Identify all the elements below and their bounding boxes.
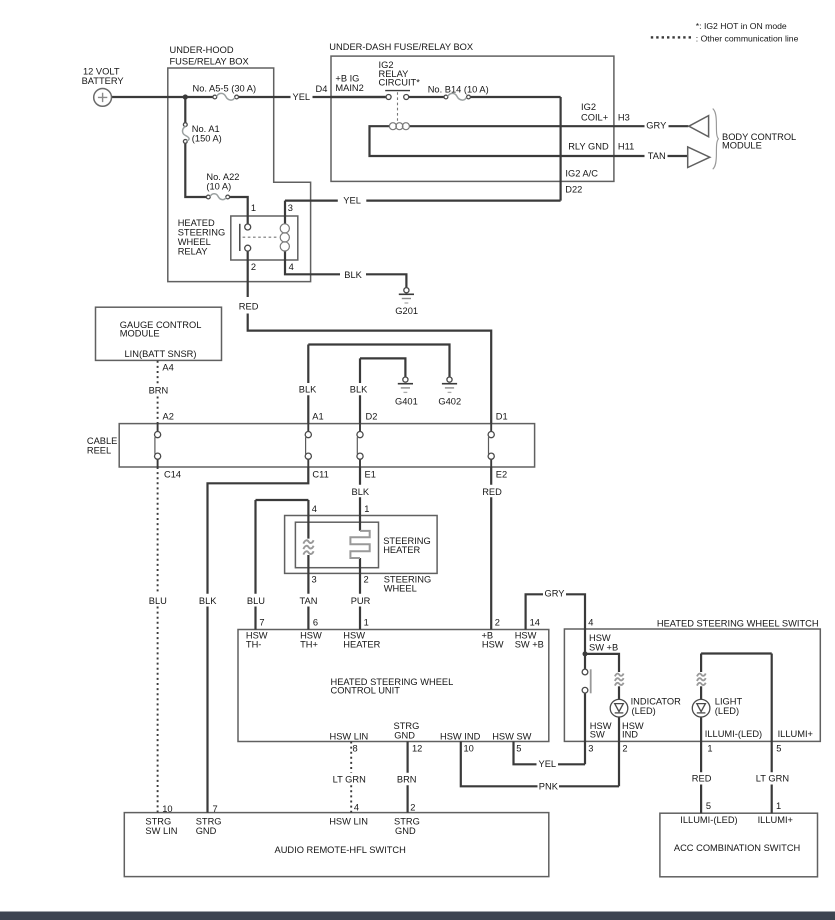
svg-text:UNDER-DASH FUSE/RELAY BOX: UNDER-DASH FUSE/RELAY BOX bbox=[329, 42, 473, 52]
svg-text:LT GRN: LT GRN bbox=[756, 773, 789, 783]
svg-text:D22: D22 bbox=[565, 184, 582, 194]
svg-text:HSW IND: HSW IND bbox=[440, 732, 481, 742]
svg-text:A4: A4 bbox=[162, 363, 173, 373]
svg-text:TH-: TH- bbox=[246, 640, 262, 650]
svg-text:4: 4 bbox=[588, 617, 593, 627]
svg-text:AUDIO REMOTE-HFL SWITCH: AUDIO REMOTE-HFL SWITCH bbox=[275, 845, 406, 855]
svg-text:SW LIN: SW LIN bbox=[145, 826, 177, 836]
svg-text:GND: GND bbox=[196, 826, 217, 836]
svg-text:TAN: TAN bbox=[300, 596, 318, 606]
svg-text:(LED): (LED) bbox=[632, 706, 656, 716]
svg-text:YEL: YEL bbox=[539, 759, 557, 769]
svg-text:PUR: PUR bbox=[351, 596, 371, 606]
svg-text:(150 A): (150 A) bbox=[192, 133, 222, 143]
svg-text:HEATED STEERING WHEEL SWITCH: HEATED STEERING WHEEL SWITCH bbox=[657, 618, 819, 628]
svg-text:ILLUMI+: ILLUMI+ bbox=[778, 729, 813, 739]
svg-text:TH+: TH+ bbox=[300, 640, 318, 650]
svg-text:CABLE: CABLE bbox=[87, 436, 118, 446]
svg-text:SW +B: SW +B bbox=[515, 640, 544, 650]
svg-text:BRN: BRN bbox=[397, 775, 417, 785]
svg-text:2: 2 bbox=[364, 574, 369, 584]
svg-text:A1: A1 bbox=[312, 412, 323, 422]
svg-text:2: 2 bbox=[251, 262, 256, 272]
svg-text:BRN: BRN bbox=[149, 385, 169, 395]
svg-text:12 VOLT: 12 VOLT bbox=[83, 67, 120, 77]
svg-text:5: 5 bbox=[706, 801, 711, 811]
svg-text:YEL: YEL bbox=[293, 92, 311, 102]
svg-text:2: 2 bbox=[410, 803, 415, 813]
svg-text:C11: C11 bbox=[312, 470, 328, 480]
svg-text:D1: D1 bbox=[496, 412, 508, 422]
svg-text:BLU: BLU bbox=[247, 596, 265, 606]
svg-text:PNK: PNK bbox=[539, 782, 559, 792]
svg-text:HEATED: HEATED bbox=[178, 218, 215, 228]
svg-text:RELAY: RELAY bbox=[178, 247, 208, 257]
svg-text:BLU: BLU bbox=[149, 596, 167, 606]
svg-text:E2: E2 bbox=[496, 470, 507, 480]
svg-text:HSW: HSW bbox=[482, 640, 504, 650]
svg-text:3: 3 bbox=[288, 203, 293, 213]
svg-text:LIGHT: LIGHT bbox=[715, 696, 743, 706]
svg-text:WHEEL: WHEEL bbox=[384, 584, 417, 594]
svg-text:(LED): (LED) bbox=[715, 706, 739, 716]
svg-text:GRY: GRY bbox=[545, 589, 565, 599]
svg-text:10: 10 bbox=[464, 744, 474, 754]
svg-text:IG2 A/C: IG2 A/C bbox=[565, 169, 598, 179]
svg-text:MODULE: MODULE bbox=[120, 329, 160, 339]
svg-text:HEATER: HEATER bbox=[383, 545, 420, 555]
svg-text:SW: SW bbox=[590, 730, 605, 740]
svg-text:SW +B: SW +B bbox=[589, 642, 618, 652]
svg-text:HSW LIN: HSW LIN bbox=[330, 732, 369, 742]
svg-text:(10 A): (10 A) bbox=[206, 181, 231, 191]
svg-text:No. A5-5 (30 A): No. A5-5 (30 A) bbox=[193, 83, 257, 93]
svg-text:INDICATOR: INDICATOR bbox=[631, 696, 682, 706]
svg-text:CONTROL UNIT: CONTROL UNIT bbox=[331, 686, 401, 696]
svg-text:MAIN2: MAIN2 bbox=[335, 83, 363, 93]
svg-text:: Other communication line: : Other communication line bbox=[696, 34, 799, 44]
svg-text:RED: RED bbox=[239, 302, 259, 312]
svg-text:STRG: STRG bbox=[196, 816, 222, 826]
svg-text:+B IG: +B IG bbox=[335, 74, 359, 84]
svg-text:BLK: BLK bbox=[199, 596, 217, 606]
svg-text:10: 10 bbox=[162, 804, 172, 814]
svg-text:ILLUMI-(LED): ILLUMI-(LED) bbox=[705, 729, 762, 739]
svg-text:H3: H3 bbox=[618, 112, 630, 122]
svg-text:RLY GND: RLY GND bbox=[568, 141, 609, 151]
svg-text:1: 1 bbox=[364, 617, 369, 627]
svg-text:BLK: BLK bbox=[299, 385, 317, 395]
svg-text:ILLUMI-(LED): ILLUMI-(LED) bbox=[680, 815, 737, 825]
svg-text:BATTERY: BATTERY bbox=[82, 76, 124, 86]
svg-text:HSW SW: HSW SW bbox=[492, 732, 531, 742]
svg-text:1: 1 bbox=[707, 744, 712, 754]
svg-text:E1: E1 bbox=[365, 470, 376, 480]
svg-text:MODULE: MODULE bbox=[722, 140, 762, 150]
svg-text:RED: RED bbox=[482, 487, 502, 497]
svg-text:BLK: BLK bbox=[350, 385, 368, 395]
svg-text:*: IG2 HOT in ON mode: *: IG2 HOT in ON mode bbox=[696, 21, 787, 31]
svg-text:2: 2 bbox=[622, 744, 627, 754]
svg-text:HSW LIN: HSW LIN bbox=[329, 816, 368, 826]
svg-text:H11: H11 bbox=[618, 141, 634, 151]
svg-text:STRG: STRG bbox=[145, 816, 171, 826]
svg-text:D2: D2 bbox=[366, 412, 378, 422]
svg-text:GRY: GRY bbox=[646, 120, 666, 130]
svg-text:6: 6 bbox=[313, 617, 318, 627]
svg-text:WHEEL: WHEEL bbox=[178, 237, 211, 247]
svg-text:A2: A2 bbox=[163, 412, 174, 422]
svg-text:3: 3 bbox=[588, 744, 593, 754]
svg-text:CIRCUIT*: CIRCUIT* bbox=[379, 78, 421, 88]
svg-text:4: 4 bbox=[289, 262, 294, 272]
svg-text:4: 4 bbox=[354, 803, 359, 813]
svg-text:IND: IND bbox=[622, 730, 638, 740]
svg-text:7: 7 bbox=[213, 804, 218, 814]
svg-text:COIL+: COIL+ bbox=[581, 113, 608, 123]
svg-text:3: 3 bbox=[312, 574, 317, 584]
svg-text:ACC COMBINATION SWITCH: ACC COMBINATION SWITCH bbox=[674, 843, 800, 853]
svg-text:G201: G201 bbox=[395, 306, 418, 316]
svg-text:1: 1 bbox=[251, 203, 256, 213]
svg-text:1: 1 bbox=[776, 801, 781, 811]
svg-text:REEL: REEL bbox=[87, 446, 111, 456]
svg-text:No. B14 (10 A): No. B14 (10 A) bbox=[428, 85, 489, 95]
svg-text:1: 1 bbox=[364, 504, 369, 514]
svg-text:STEERING: STEERING bbox=[178, 228, 226, 238]
svg-text:LT GRN: LT GRN bbox=[333, 775, 366, 785]
svg-text:TAN: TAN bbox=[648, 151, 666, 161]
svg-text:14: 14 bbox=[530, 617, 540, 627]
svg-text:UNDER-HOOD: UNDER-HOOD bbox=[170, 45, 234, 55]
svg-text:LIN(BATT SNSR): LIN(BATT SNSR) bbox=[125, 349, 197, 359]
svg-text:GND: GND bbox=[394, 730, 415, 740]
svg-text:D4: D4 bbox=[316, 84, 328, 94]
svg-text:C14: C14 bbox=[164, 470, 181, 480]
svg-text:G401: G401 bbox=[395, 396, 418, 406]
svg-text:5: 5 bbox=[516, 744, 521, 754]
svg-text:IG2: IG2 bbox=[581, 102, 596, 112]
svg-text:7: 7 bbox=[259, 617, 264, 627]
svg-text:12: 12 bbox=[412, 744, 422, 754]
svg-text:BLK: BLK bbox=[344, 270, 362, 280]
svg-text:BLK: BLK bbox=[352, 487, 370, 497]
svg-text:FUSE/RELAY BOX: FUSE/RELAY BOX bbox=[170, 57, 249, 67]
svg-text:HEATER: HEATER bbox=[343, 640, 380, 650]
svg-text:2: 2 bbox=[495, 617, 500, 627]
svg-text:8: 8 bbox=[353, 744, 358, 754]
svg-text:G402: G402 bbox=[438, 396, 461, 406]
svg-text:GND: GND bbox=[395, 826, 416, 836]
svg-text:STRG: STRG bbox=[394, 816, 420, 826]
svg-text:4: 4 bbox=[312, 504, 317, 514]
svg-text:5: 5 bbox=[776, 744, 781, 754]
svg-text:RED: RED bbox=[692, 773, 712, 783]
svg-text:ILLUMI+: ILLUMI+ bbox=[758, 815, 793, 825]
svg-text:YEL: YEL bbox=[343, 196, 361, 206]
